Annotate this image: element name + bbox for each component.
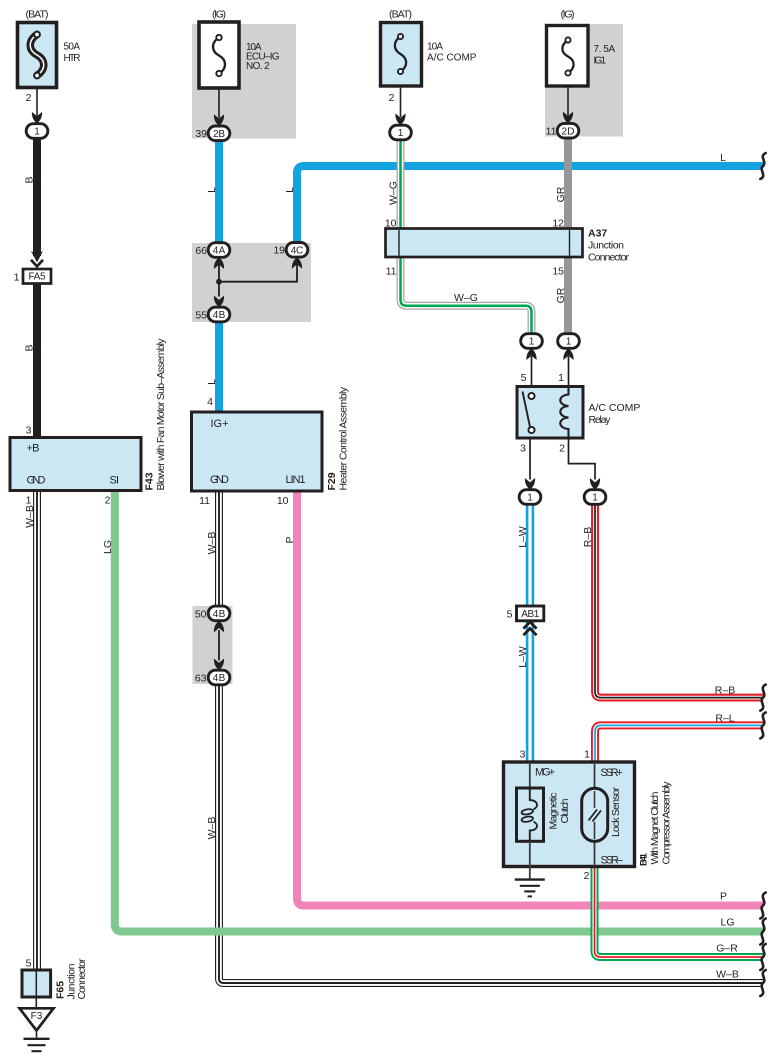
svg-text:66: 66 [195, 245, 207, 257]
oval 4C [286, 243, 308, 258]
svg-text:(BAT): (BAT) [26, 9, 49, 21]
svg-text:FA5: FA5 [29, 272, 46, 283]
arrow into 4A [214, 257, 224, 269]
svg-text:Junction: Junction [588, 240, 624, 252]
arrow into oval relay5 [526, 348, 536, 360]
arrow into oval 1 col C [395, 113, 405, 125]
arrow into oval 2D [563, 112, 573, 124]
svg-text:P: P [720, 891, 727, 903]
svg-text:5: 5 [26, 958, 32, 970]
break mark P [760, 893, 765, 919]
gray background box fuse IG1 [545, 24, 623, 137]
heater control box F29 [192, 412, 323, 491]
svg-text:1: 1 [398, 128, 404, 139]
gray background box junction 50 63 [193, 606, 233, 684]
fuse 50A HTR (BAT) [18, 23, 57, 88]
oval 2D [557, 123, 579, 138]
svg-text:1: 1 [529, 337, 535, 348]
wire junction dot to 4C [219, 258, 297, 282]
svg-text:NO. 2: NO. 2 [246, 61, 270, 72]
svg-text:50A: 50A [64, 42, 81, 53]
lock sensor [582, 788, 608, 841]
wire oval to relay pin1 [568, 356, 570, 387]
wire 4A to junction dot [218, 258, 220, 283]
svg-text:2B: 2B [213, 129, 225, 140]
svg-text:3: 3 [520, 443, 526, 455]
svg-text:63: 63 [195, 672, 207, 684]
svg-text:2: 2 [584, 870, 590, 882]
svg-text:Connector: Connector [76, 958, 88, 1000]
arrow into oval LW [525, 478, 535, 490]
break mark L [760, 153, 765, 179]
arrow into 4B [214, 296, 224, 308]
arrow into oval 1 col A [32, 112, 42, 124]
svg-text:W–G: W–G [387, 181, 399, 205]
svg-text:2: 2 [105, 495, 111, 507]
svg-text:With Magnet Clutch: With Magnet Clutch [649, 791, 661, 864]
svg-text:1: 1 [584, 749, 590, 761]
svg-text:5: 5 [507, 608, 513, 620]
svg-text:R–L: R–L [715, 713, 734, 725]
svg-text:4C: 4C [291, 245, 304, 256]
AB1 connector [517, 606, 544, 635]
svg-text:SSR+: SSR+ [601, 767, 623, 779]
svg-text:AB1: AB1 [521, 609, 539, 620]
svg-text:11: 11 [386, 266, 397, 278]
wire relay pin2 down and right [569, 438, 596, 480]
svg-text:10A: 10A [427, 42, 443, 53]
wire fuse4 lead [567, 86, 569, 116]
svg-text:(IG): (IG) [561, 9, 575, 21]
wire L-W relay pin3 to compressor MG+ [526, 504, 534, 763]
ground triangle F3 [20, 1008, 54, 1037]
relay A/C COMP box [517, 387, 583, 439]
svg-text:HTR: HTR [64, 53, 81, 64]
break mark R-L [760, 712, 765, 738]
break mark G-R [760, 944, 765, 970]
svg-text:1: 1 [592, 493, 598, 504]
wire fuse1 pin2 lead [36, 88, 38, 116]
break mark W-B [760, 970, 765, 996]
junction connector A37 [386, 229, 583, 258]
svg-text:L: L [284, 187, 296, 193]
arrow into oval 2B [214, 114, 224, 126]
svg-text:W–B: W–B [24, 505, 36, 528]
svg-text:(IG): (IG) [212, 9, 226, 21]
svg-text:39: 39 [195, 128, 207, 140]
wire W-G white/green [401, 139, 532, 334]
svg-text:11: 11 [546, 126, 557, 138]
svg-text:12: 12 [552, 218, 564, 230]
wire L blue 4B to heater IG+ [215, 321, 223, 413]
svg-text:Compressor Assembly: Compressor Assembly [661, 781, 673, 865]
svg-text:Relay: Relay [589, 414, 612, 426]
svg-text:LIN1: LIN1 [286, 474, 306, 486]
svg-text:4B: 4B [213, 310, 226, 321]
svg-text:F3: F3 [31, 1011, 43, 1022]
svg-text:1: 1 [26, 495, 32, 507]
oval 4B [208, 307, 230, 322]
wire fuse3 lead [400, 86, 402, 117]
svg-text:GR: GR [555, 186, 567, 202]
svg-text:G–R: G–R [716, 943, 738, 955]
wire G-R compressor SSR- to right edge [595, 866, 764, 957]
wire fuse2 lead [218, 88, 220, 118]
wire L blue 2B to 4A [215, 140, 223, 244]
gray background box fuse ECU-IG [192, 24, 296, 139]
svg-text:F43: F43 [144, 472, 156, 490]
svg-text:R–B: R–B [582, 527, 594, 547]
svg-text:15: 15 [552, 266, 564, 278]
svg-text:3: 3 [520, 749, 526, 761]
junction connector F65 [22, 970, 51, 1008]
arrow into 63 [214, 659, 224, 671]
svg-text:4B: 4B [213, 673, 226, 684]
FA5 connector [23, 251, 51, 284]
svg-text:55: 55 [195, 309, 207, 321]
break mark LG [760, 919, 765, 945]
wire junction dot to 4B [218, 282, 220, 297]
svg-text:3: 3 [26, 425, 32, 437]
svg-text:(BAT): (BAT) [389, 9, 412, 21]
wire B thick black FA5 to blower [33, 283, 41, 438]
svg-text:W–B: W–B [716, 969, 739, 981]
arrow into oval relay1 [563, 348, 573, 360]
ground magnetic clutch [515, 880, 545, 897]
fuse 10A ECU-IG NO.2 (IG) [199, 22, 239, 88]
svg-text:LG: LG [102, 540, 114, 554]
svg-text:2: 2 [559, 443, 565, 455]
svg-text:1: 1 [527, 493, 533, 504]
svg-text:GR: GR [555, 287, 567, 303]
svg-text:B: B [24, 344, 36, 351]
svg-text:Connector: Connector [588, 252, 630, 264]
svg-text:Blower with Fan Motor Sub–Asse: Blower with Fan Motor Sub–Assembly [155, 338, 167, 491]
svg-text:1: 1 [14, 272, 20, 284]
svg-text:2: 2 [26, 92, 32, 104]
wire oval to relay pin5 [531, 356, 533, 387]
node junction dot [216, 279, 222, 285]
arrow into 4C [292, 257, 302, 269]
wire LG green SI to right edge [115, 491, 763, 932]
svg-text:2D: 2D [562, 126, 575, 137]
svg-text:L: L [206, 187, 218, 193]
svg-text:SI: SI [110, 475, 120, 487]
svg-text:Clutch: Clutch [559, 798, 571, 823]
svg-text:2: 2 [389, 92, 395, 104]
svg-text:A/C COMP: A/C COMP [589, 402, 641, 414]
wire B thick black fuse to FA5 [33, 138, 41, 257]
svg-text:L: L [720, 152, 726, 164]
svg-text:+B: +B [27, 443, 40, 455]
wire relay pin3 down [529, 438, 531, 480]
fuse 7.5A IG1 (IG) [547, 26, 589, 87]
wire R-B relay pin2 to right edge [595, 504, 763, 698]
svg-text:MG+: MG+ [535, 767, 555, 779]
svg-text:B: B [24, 176, 36, 183]
svg-text:IG+: IG+ [211, 418, 229, 430]
svg-text:1: 1 [558, 372, 564, 384]
break mark R-B [760, 685, 765, 711]
ground symbol F3 [24, 1039, 50, 1051]
svg-text:A/C COMP: A/C COMP [427, 53, 477, 64]
oval 1 relay pin5 [521, 334, 543, 349]
svg-text:W–B: W–B [206, 532, 218, 555]
wire W-B heater GND to right edge [219, 491, 763, 983]
oval 1 LW [519, 490, 541, 505]
svg-text:19: 19 [273, 245, 285, 257]
svg-text:5: 5 [521, 372, 527, 384]
svg-text:W–G: W–G [454, 292, 478, 304]
wire L blue horizontal to 4C [297, 166, 763, 244]
oval 1 col A [26, 124, 48, 139]
svg-text:SSR–: SSR– [601, 855, 624, 867]
magnetic clutch [517, 788, 544, 879]
svg-text:1: 1 [34, 127, 40, 138]
svg-text:L–W: L–W [517, 646, 529, 668]
blower motor box F43 [10, 438, 141, 491]
wire R-L right edge to compressor SSR+ [595, 725, 763, 762]
oval 63 4B [208, 670, 230, 685]
svg-text:4B: 4B [213, 609, 226, 620]
svg-text:L–W: L–W [517, 526, 529, 548]
oval 1 col C [390, 125, 412, 140]
svg-text:P: P [284, 536, 296, 543]
compressor assembly box B41 [504, 762, 635, 867]
wire GR gray vertical [564, 138, 572, 335]
svg-text:LG: LG [720, 917, 734, 929]
oval 1 RB [584, 490, 606, 505]
svg-text:Lock Sensor: Lock Sensor [610, 787, 622, 838]
oval 4A [208, 243, 230, 258]
svg-text:L: L [206, 379, 218, 385]
svg-text:11: 11 [199, 495, 210, 507]
svg-text:F29: F29 [326, 472, 338, 490]
svg-text:4: 4 [207, 396, 213, 408]
wire P pink LIN1 to right edge [297, 491, 763, 906]
svg-text:GND: GND [210, 474, 229, 486]
svg-text:W–B: W–B [206, 817, 218, 840]
oval 1 relay pin1 [558, 334, 580, 349]
svg-text:R–B: R–B [715, 685, 735, 697]
svg-text:B41: B41 [639, 852, 650, 866]
svg-text:50: 50 [195, 609, 207, 621]
svg-text:A37: A37 [588, 228, 607, 240]
svg-text:1: 1 [566, 337, 572, 348]
svg-text:10: 10 [385, 218, 397, 230]
arrow into oval RB [590, 478, 600, 490]
svg-text:10: 10 [277, 495, 289, 507]
fuse 10A A/C COMP (BAT) [381, 23, 422, 87]
svg-text:7. 5A: 7. 5A [594, 44, 616, 55]
wire between 50 and 63 connectors [218, 630, 220, 661]
gray background box junction 4A 4C 4B [192, 243, 311, 322]
wire W-B blower GND to F65 [33, 490, 41, 970]
svg-text:GND: GND [27, 475, 46, 487]
svg-text:IG1: IG1 [594, 56, 607, 67]
arrow into 50 [214, 621, 224, 633]
svg-text:4A: 4A [213, 246, 226, 257]
oval 2B [208, 126, 230, 141]
oval 50 4B [208, 606, 230, 621]
svg-text:Magnetic: Magnetic [548, 793, 560, 830]
svg-text:Heater Control Assembly: Heater Control Assembly [338, 386, 350, 490]
